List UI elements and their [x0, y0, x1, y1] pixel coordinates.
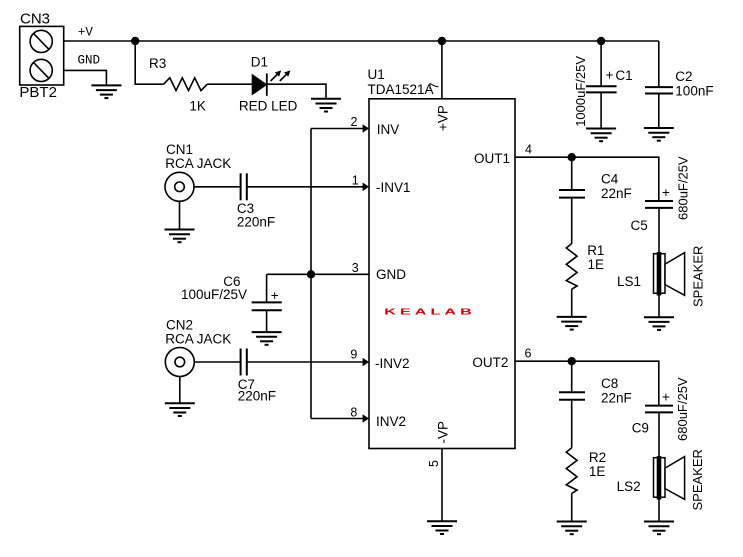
svg-text:GND: GND: [376, 267, 406, 282]
junction node OUT1/C4: [568, 153, 576, 161]
svg-text:1K: 1K: [189, 99, 206, 114]
svg-text:22nF: 22nF: [601, 391, 632, 406]
svg-text:220nF: 220nF: [237, 214, 275, 229]
svg-text:RCA JACK: RCA JACK: [165, 156, 231, 171]
wire C7 to pin 9: [247, 361, 363, 363]
wire pin 6 OUT2: [515, 361, 659, 405]
wire C9 to LS2: [658, 412, 660, 456]
wire R1 to ground: [571, 289, 573, 317]
svg-text:3: 3: [352, 261, 359, 275]
capacitor C5: [645, 201, 673, 208]
svg-text:D1: D1: [251, 55, 268, 70]
capacitor C4: [559, 190, 585, 198]
wire pin 5 -VP: [441, 449, 443, 522]
junction node OUT2/C8: [568, 357, 576, 365]
junction node rail/C1: [597, 37, 605, 45]
capacitor C1: [586, 86, 617, 92]
wire OUT1 to C4: [571, 157, 573, 190]
ground pin 5: [427, 521, 457, 534]
svg-text:8: 8: [350, 406, 357, 420]
LED D1: [252, 70, 290, 95]
wire C8 to R2: [571, 400, 573, 448]
wire pin 4 OUT1: [515, 157, 659, 201]
capacitor C7: [241, 349, 247, 376]
wire pin 2 INV: [311, 128, 363, 130]
svg-text:CN2: CN2: [166, 318, 193, 333]
svg-text:RED LED: RED LED: [239, 99, 298, 114]
svg-text:6: 6: [525, 347, 532, 361]
wire OUT2 to C8: [571, 361, 573, 392]
wire D1 to ground: [267, 84, 326, 99]
svg-text:SPEAKER: SPEAKER: [691, 246, 706, 307]
wire C2 to ground: [658, 94, 660, 129]
wire pin 7 +VP: [441, 41, 443, 99]
wire pin 8 INV2: [311, 418, 363, 420]
ground terminal GND: [91, 85, 121, 98]
svg-text:GND: GND: [78, 54, 101, 68]
capacitor C8: [559, 392, 585, 400]
wire CN2 to C7: [194, 361, 240, 363]
svg-text:4: 4: [525, 143, 532, 157]
resistor R1: [566, 244, 577, 290]
svg-text:680uF/25V: 680uF/25V: [675, 377, 690, 441]
svg-text:680uF/25V: 680uF/25V: [676, 156, 691, 220]
svg-text:100nF: 100nF: [675, 84, 713, 99]
wire R2 to ground: [571, 493, 573, 521]
svg-text:C5: C5: [631, 218, 648, 233]
svg-text:CN1: CN1: [166, 142, 193, 157]
svg-text:+: +: [606, 68, 614, 83]
svg-text:C8: C8: [601, 376, 618, 391]
svg-text:RCA JACK: RCA JACK: [165, 332, 231, 347]
svg-text:INV2: INV2: [376, 414, 406, 429]
resistor R2: [566, 448, 577, 494]
ground LS1: [644, 317, 674, 330]
svg-text:PBT2: PBT2: [19, 84, 57, 101]
ground R2: [557, 522, 587, 535]
wire C1 riser: [600, 41, 602, 86]
svg-text:OUT1: OUT1: [474, 151, 510, 166]
ground C1: [586, 129, 616, 142]
svg-text:LS2: LS2: [617, 479, 641, 494]
wire pin 3 GND net: [267, 273, 369, 275]
svg-text:C2: C2: [675, 69, 692, 84]
svg-text:7: 7: [428, 83, 442, 90]
ground CN2: [165, 403, 195, 416]
wire LS2 to ground: [658, 500, 660, 522]
svg-text:-VP: -VP: [436, 421, 451, 444]
svg-text:9: 9: [350, 348, 357, 362]
speaker LS1: [654, 252, 685, 296]
wire LS1 to ground: [658, 296, 660, 318]
svg-text:TDA1521A: TDA1521A: [368, 82, 434, 97]
svg-text:C9: C9: [632, 421, 649, 436]
wire C5 to LS1: [658, 208, 660, 252]
svg-text:C1: C1: [615, 68, 632, 83]
svg-text:1E: 1E: [588, 257, 605, 272]
svg-text:INV: INV: [377, 122, 400, 137]
connector CN3 terminal block PBT2: [20, 26, 64, 85]
speaker LS2: [654, 456, 685, 500]
wire LED branch drop: [135, 41, 163, 84]
svg-text:KEALAB: KEALAB: [384, 306, 475, 316]
svg-text:+V: +V: [78, 26, 94, 40]
wire C4 to R1: [571, 198, 573, 244]
svg-text:-INV1: -INV1: [376, 180, 411, 195]
wire rail corner to C2: [658, 41, 660, 87]
svg-text:1E: 1E: [589, 464, 606, 479]
wire C3 to pin 1: [247, 186, 363, 188]
junction node rail/pin7: [438, 37, 446, 45]
ground LS2: [644, 522, 674, 535]
svg-text:1: 1: [352, 173, 359, 187]
capacitor C3: [241, 173, 247, 200]
svg-text:R2: R2: [589, 450, 606, 465]
wire CN2 to ground: [179, 377, 181, 404]
svg-text:+: +: [662, 390, 670, 405]
connector CN1 RCA jack: [165, 172, 194, 201]
svg-text:R1: R1: [587, 243, 604, 258]
svg-text:SPEAKER: SPEAKER: [690, 449, 705, 510]
resistor R3: [164, 78, 208, 91]
ground CN1: [165, 230, 195, 243]
wire R3 to D1: [207, 83, 252, 85]
wire +V rail: [64, 40, 659, 42]
svg-text:OUT2: OUT2: [472, 355, 508, 370]
wire C6 riser: [266, 274, 268, 302]
svg-text:R3: R3: [149, 56, 166, 71]
wire input bus: [310, 129, 312, 419]
svg-text:+: +: [662, 185, 670, 200]
svg-text:+: +: [271, 288, 279, 303]
svg-text:22nF: 22nF: [601, 186, 632, 201]
capacitor C9: [645, 406, 673, 413]
wire CN1 to C3: [194, 186, 241, 188]
svg-text:1000uF/25V: 1000uF/25V: [573, 56, 588, 127]
svg-text:2: 2: [351, 115, 358, 129]
svg-text:+VP: +VP: [436, 105, 451, 131]
junction node rail/LED branch: [131, 37, 139, 45]
wire CN1 to ground: [179, 201, 181, 229]
wire C1 to ground: [600, 92, 602, 128]
svg-text:C4: C4: [601, 171, 619, 186]
capacitor C6: [252, 302, 282, 310]
svg-text:5: 5: [427, 460, 441, 467]
junction node bus/GND net: [307, 270, 315, 278]
capacitor C2: [645, 87, 673, 93]
svg-text:CN3: CN3: [20, 11, 50, 28]
svg-text:-INV2: -INV2: [375, 356, 410, 371]
svg-text:LS1: LS1: [617, 274, 641, 289]
svg-text:U1: U1: [368, 67, 385, 82]
ground C6: [252, 332, 282, 345]
ground R1: [557, 317, 587, 330]
ground C2: [644, 128, 674, 141]
ground LED: [311, 99, 341, 112]
svg-text:100uF/25V: 100uF/25V: [181, 287, 247, 302]
svg-text:220nF: 220nF: [238, 389, 276, 404]
connector CN2 RCA jack: [165, 348, 194, 377]
wire GND stub: [64, 70, 107, 85]
wire C6 to ground: [266, 310, 268, 332]
op-amp IC U1 TDA1521A body: [369, 99, 515, 449]
